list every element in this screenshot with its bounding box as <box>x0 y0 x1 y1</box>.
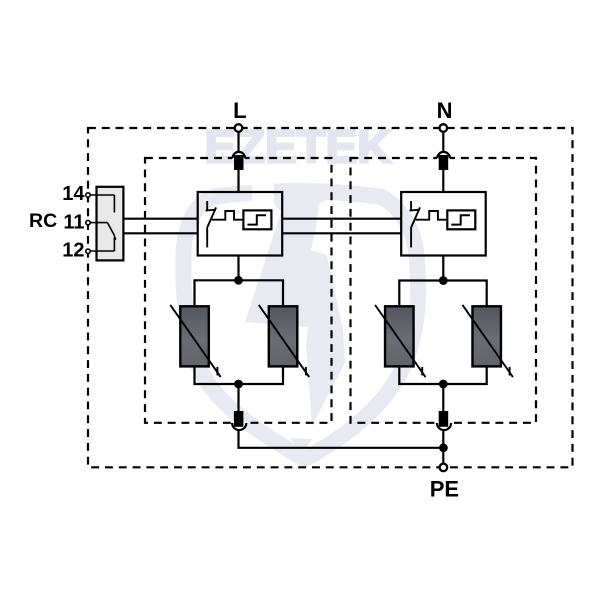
varistor RV1 <box>170 305 220 377</box>
varistor RV4 <box>463 305 513 377</box>
svg-text:PE: PE <box>430 476 459 501</box>
wire: L path bottom disconnector to PE rail <box>239 430 444 448</box>
disconnect switch symbol inside U2 <box>410 201 420 247</box>
thermal disconnector socket arc, N path top <box>437 152 450 160</box>
monitoring/disconnector unit U1 (L path) <box>198 192 283 256</box>
junction node: N varistor network bottom <box>439 380 448 389</box>
wire: U1 to U2 (upper link) <box>282 218 401 220</box>
SPD enclosure boundary (outer dashed box) <box>88 128 573 467</box>
svg-text:14: 14 <box>62 183 85 205</box>
wire: RC contact to modules (upper) <box>123 218 197 220</box>
wire: disconnector F1 to monitoring unit U1 <box>237 170 239 192</box>
wire: varistor network top rail, N path <box>399 281 486 307</box>
terminal 11 <box>86 220 90 224</box>
RC changeover contact internals <box>91 195 117 251</box>
protection module 1 boundary (inner dashed box, L path) <box>145 158 332 423</box>
junction node: N varistor network top <box>439 276 448 285</box>
terminal L <box>235 124 243 132</box>
wire: RC contact to modules (lower) <box>123 232 197 234</box>
wire: network to bottom disconnector, N path <box>442 384 444 412</box>
svg-text:RC: RC <box>29 210 57 232</box>
wire: unit U1 to varistor network top node <box>237 256 239 281</box>
wire: varistor network bottom rail, N path <box>399 366 486 384</box>
thermal disconnector socket arc, L path top <box>232 152 245 160</box>
wire: varistor network bottom rail, L path <box>195 366 284 384</box>
protection module 2 boundary (inner dashed box, N path) <box>351 158 537 423</box>
wire: disconnector F3 to monitoring unit U2 <box>442 170 444 192</box>
wire: terminal L to disconnector F1 <box>237 132 239 152</box>
thermal disconnector socket arc, N path bottom <box>437 422 452 430</box>
junction node: PE link <box>439 443 448 452</box>
terminal 14 <box>86 193 90 197</box>
wire: varistor network top rail, L path <box>195 280 284 306</box>
svg-text:11: 11 <box>63 211 84 233</box>
svg-text:L: L <box>233 98 246 123</box>
wire: unit U2 to varistor network top node <box>442 256 444 281</box>
svg-text:12: 12 <box>62 240 84 262</box>
disconnect switch symbol inside U1 <box>206 201 216 247</box>
varistor RV2 <box>259 305 309 377</box>
thermal disconnector socket arc, L path bottom <box>232 422 247 431</box>
signal waveform symbol inside U2 <box>416 211 448 220</box>
thermal disconnector F3 (black cartridge, N path top) <box>439 155 449 170</box>
thermal disconnector F2 (black cartridge, L path bottom) <box>234 411 244 427</box>
wire: network to bottom disconnector, L path <box>237 384 239 412</box>
signal output box with step symbol inside U2 <box>447 210 475 229</box>
terminal 12 <box>86 249 90 253</box>
thermal disconnector F4 (black cartridge, N path bottom) <box>439 411 449 427</box>
monitoring/disconnector unit U2 (N path) <box>401 192 486 256</box>
wire: N path bottom disconnector to terminal PE <box>442 430 444 463</box>
signal waveform symbol inside U1 <box>212 211 244 220</box>
svg-text:N: N <box>437 98 453 123</box>
wire: U1 to U2 (lower link) <box>282 232 401 234</box>
terminal N <box>440 124 448 132</box>
wire: terminal N to disconnector F3 <box>442 132 444 152</box>
terminal PE <box>440 464 448 472</box>
signal output box with step symbol inside U1 <box>243 210 271 229</box>
junction node: L varistor network bottom <box>234 380 243 389</box>
junction node: L varistor network top <box>234 276 243 285</box>
varistor RV3 <box>375 305 425 377</box>
remote signalling contact block RC (grey body) <box>97 187 124 261</box>
thermal disconnector F1 (black cartridge, L path top) <box>234 155 244 170</box>
